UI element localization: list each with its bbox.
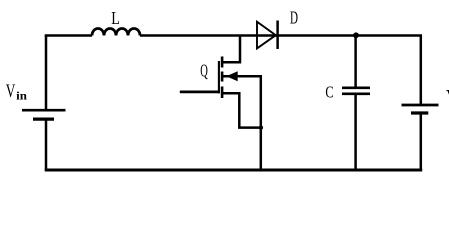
gate plate: [218, 61, 220, 93]
capacitor C: [342, 88, 370, 94]
diode D: [257, 21, 278, 50]
body lead wire with arrow: [223, 76, 261, 170]
node source-body junction nub: [259, 125, 263, 129]
battery V output: [402, 105, 439, 113]
svg-text:L: L: [111, 8, 120, 28]
svg-text:Q: Q: [200, 61, 208, 81]
wire right side down to output battery: [420, 36, 423, 105]
body arrowhead: [226, 71, 238, 81]
inductor L: [92, 29, 140, 36]
node junction dot at capacitor branch: [353, 32, 359, 38]
wire capacitor branch upper: [354, 36, 357, 88]
svg-text:D: D: [290, 7, 298, 27]
wire output battery to bottom rail: [420, 113, 423, 170]
wire bottom rail: [45, 169, 423, 172]
channel segment source: [221, 87, 224, 99]
channel segment drain: [221, 57, 224, 68]
gate lead wire: [180, 91, 220, 94]
drain lead wire: [223, 36, 241, 63]
wire top rail middle to right corner: [140, 34, 422, 37]
source lead wire: [223, 93, 261, 127]
transistor Q (MOSFET): [180, 36, 263, 171]
svg-text:V: V: [6, 81, 16, 102]
wire capacitor branch lower: [354, 94, 357, 170]
svg-text:in: in: [16, 90, 27, 102]
wire left side down to Vin: [45, 36, 48, 111]
wire Vin to bottom rail: [45, 119, 48, 170]
channel segment body: [221, 72, 224, 82]
label Vin: [6, 81, 28, 102]
battery Vin: [22, 110, 66, 119]
wire top rail left segment: [45, 34, 92, 37]
svg-text:C: C: [325, 83, 333, 102]
